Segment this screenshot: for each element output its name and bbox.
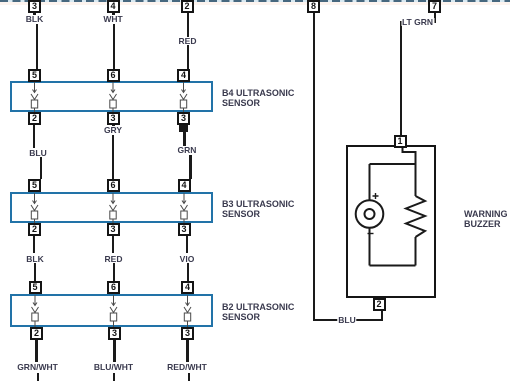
wire loop bottom [370, 265, 416, 267]
sounder negative mark [368, 233, 374, 235]
B4 pin 5 [28, 69, 41, 82]
sounder positive mark [373, 193, 379, 199]
wire GRY to B3 pin 6 [112, 134, 114, 179]
sounder element circle [356, 200, 384, 228]
wire RED to B4 pin 4 [187, 45, 189, 69]
wire GRN to B3 pin 4 [189, 155, 193, 180]
wire BLU to B3 pin 5 [40, 157, 42, 179]
pin 4 (top connector, WHT) [107, 0, 120, 13]
B2 pin 3 (bottom right) [181, 327, 194, 340]
label RED [178, 37, 198, 46]
label BLU/WHT [93, 363, 134, 372]
wire stub GRN/WHT to edge [37, 373, 39, 381]
buzzer pin 1 [394, 135, 407, 148]
B4 transducer symbols [0, 81, 220, 112]
thick wire blob to GRN [183, 132, 187, 146]
wire B3 pin 2 down to BLK label [33, 236, 35, 253]
wire horizontal to pin 8 branch [313, 319, 383, 321]
pin 3 (top connector, BLK) [28, 0, 41, 13]
B2 pin 6 [107, 281, 120, 294]
wire pin1 elbow to loop [403, 146, 416, 164]
resistor zigzag [406, 196, 425, 237]
B4 pin 4 [177, 69, 190, 82]
B3 transducer symbols [0, 192, 220, 223]
B4 pin 3 (bottom middle) [107, 112, 120, 125]
wire LT GRN down to buzzer pin 1 [400, 21, 402, 135]
B4 ultrasonic sensor box [10, 81, 213, 112]
label GRY [103, 126, 123, 135]
wire pin 7 down short [434, 13, 436, 23]
B3 pin 5 [28, 179, 41, 192]
wire B3 pin 3 right down to VIO label [186, 236, 188, 253]
B3 ultrasonic sensor box [10, 192, 213, 223]
wire stub RED/WHT to edge [188, 373, 190, 381]
faint tint under boundary [0, 2, 510, 5]
wire sounder to loop bottom [369, 228, 371, 266]
wire horizontal under LT GRN [400, 21, 436, 23]
B3 pin 3 (bottom middle) [107, 223, 120, 236]
buzzer pin 2 [373, 298, 386, 311]
wire B3 pin 3 down to RED label [112, 236, 114, 253]
B4 sensor title [222, 88, 294, 108]
label BLK [25, 15, 44, 24]
B3 pin 4 [178, 179, 191, 192]
wire pin 8 down to buzzer branch [313, 13, 315, 321]
wire loop top [370, 163, 416, 165]
dashed harness boundary line [0, 0, 510, 2]
label GRN [177, 146, 198, 155]
label BLK (col 1) [25, 255, 44, 264]
wire RED to B2 pin 6 [113, 263, 115, 282]
B2 pin 5 [29, 281, 42, 294]
B4 pin 3 (bottom right) [177, 112, 190, 125]
label BLU (buzzer wire) [337, 316, 356, 325]
wire right branch lower [415, 237, 417, 266]
wire B2 pin 3 right down to RED/WHT [186, 340, 188, 362]
label WHT [102, 15, 123, 24]
B4 pin 6 [107, 69, 120, 82]
wire buzzer pin 2 down [381, 310, 383, 321]
label GRN/WHT [16, 363, 59, 372]
pin 7 (top connector, LT GRN) [428, 0, 441, 13]
label RED/WHT [166, 363, 208, 372]
wire left branch to sounder [369, 164, 371, 200]
B3 sensor title [222, 199, 294, 219]
buzzer internal circuit [346, 145, 436, 298]
label VIO [179, 255, 196, 264]
label RED (col 2) [104, 255, 124, 264]
wire stub B4 pin 3 to GRY [112, 125, 115, 127]
B2 sensor title [222, 302, 294, 322]
pin 2 (top connector, RED) [181, 0, 194, 13]
wire B2 pin 3 down to BLU/WHT [113, 340, 115, 362]
wire stub below pin 3 [33, 13, 36, 16]
wire VIO to B2 pin 4 [187, 263, 189, 282]
wire B2 pin 2 down to GRN/WHT [35, 340, 37, 362]
wire right branch upper [415, 164, 417, 196]
wire WHT to B4 pin 6 [113, 23, 115, 69]
splice blob below B4 pin 3 right [179, 125, 189, 132]
pin 8 (top connector, to buzzer BLU) [307, 0, 320, 13]
B2 pin 3 (bottom middle) [108, 327, 121, 340]
wire BLK to B4 pin 5 [36, 23, 38, 69]
wire B4 pin 2 down to BLU label [33, 125, 35, 148]
wire stub below pin 4 [112, 13, 115, 16]
wire BLK to B2 pin 5 [34, 263, 36, 282]
warning buzzer outer box [346, 145, 436, 298]
B3 pin 2 (bottom) [28, 223, 41, 236]
B2 pin 4 [181, 281, 194, 294]
B2 transducer symbols [0, 294, 220, 327]
wire pin 2 down to RED label [187, 13, 189, 37]
B2 pin 2 (bottom) [30, 327, 43, 340]
B2 ultrasonic sensor box [10, 294, 213, 327]
B3 pin 3 (bottom right) [178, 223, 191, 236]
wire stub BLU/WHT to edge [113, 373, 115, 381]
label BLU [28, 149, 47, 158]
warning buzzer title [464, 209, 508, 229]
label LT GRN [401, 18, 434, 27]
B3 pin 6 [107, 179, 120, 192]
B4 pin 2 (bottom) [28, 112, 41, 125]
